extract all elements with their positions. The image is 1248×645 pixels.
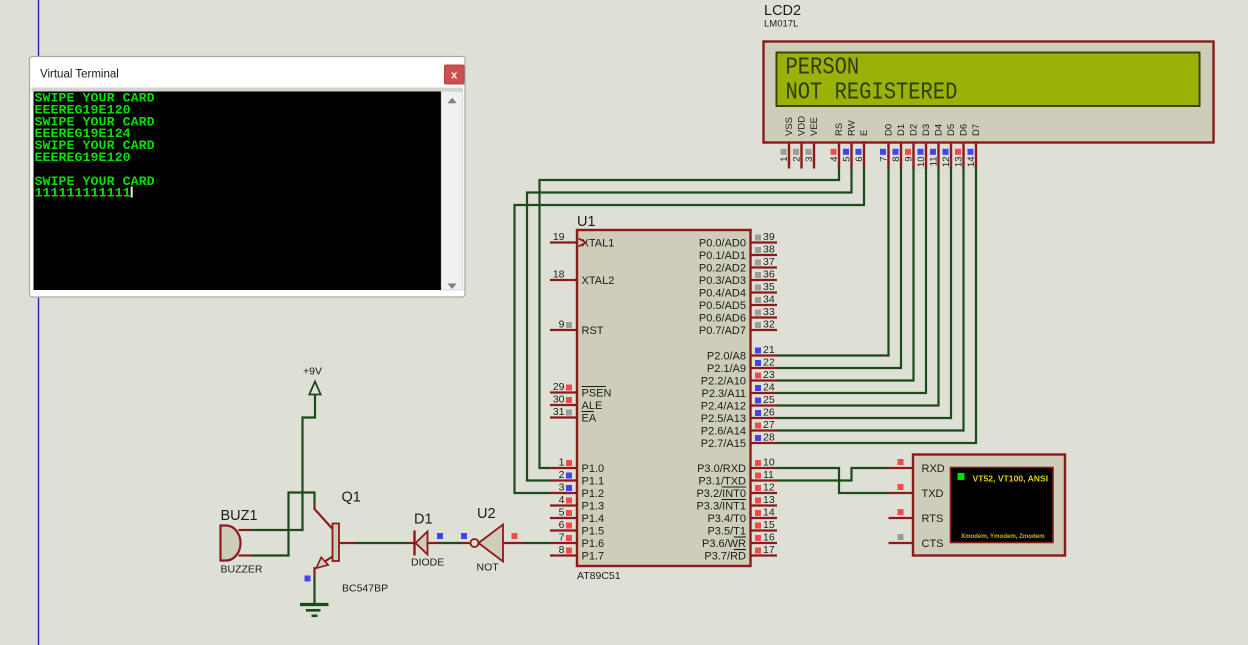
svg-text:P0.3/AD3: P0.3/AD3 [699,275,746,287]
svg-text:P3.6/WR: P3.6/WR [702,538,746,550]
svg-text:PSEN: PSEN [582,388,612,400]
svg-text:9: 9 [559,319,565,331]
svg-text:9: 9 [904,157,915,162]
svg-text:RST: RST [582,325,604,337]
svg-text:33: 33 [763,306,775,318]
svg-text:DIODE: DIODE [411,557,444,569]
svg-text:7: 7 [879,157,890,162]
svg-text:VT52, VT100, ANSI: VT52, VT100, ANSI [973,474,1049,484]
svg-text:+9V: +9V [303,366,322,378]
svg-text:11: 11 [763,469,774,481]
svg-text:1: 1 [779,157,790,162]
svg-text:LM017L: LM017L [764,19,798,30]
svg-text:13: 13 [954,157,965,168]
svg-text:P0.6/AD6: P0.6/AD6 [699,313,746,325]
svg-text:P1.4: P1.4 [582,513,605,525]
svg-text:16: 16 [763,532,775,544]
svg-text:EA: EA [582,413,597,425]
svg-text:D3: D3 [921,124,932,136]
svg-text:5: 5 [842,157,853,162]
svg-text:27: 27 [763,419,775,431]
svg-text:18: 18 [553,269,565,281]
svg-text:13: 13 [763,494,775,506]
svg-text:28: 28 [763,432,775,444]
svg-text:3: 3 [804,157,815,162]
svg-text:P1.1: P1.1 [582,476,605,488]
svg-text:P0.0/AD0: P0.0/AD0 [699,238,746,250]
svg-text:38: 38 [763,244,775,256]
svg-text:P3.2/INT0: P3.2/INT0 [696,488,746,500]
svg-text:P2.2/A10: P2.2/A10 [701,376,746,388]
svg-text:D2: D2 [909,124,920,136]
svg-text:EEEREG19E120: EEEREG19E120 [35,151,131,166]
svg-text:21: 21 [763,344,775,356]
svg-text:LCD2: LCD2 [764,3,801,19]
svg-text:12: 12 [941,157,952,168]
svg-text:7: 7 [559,532,565,544]
svg-text:P1.5: P1.5 [582,526,605,538]
svg-text:NOT: NOT [477,562,500,574]
svg-text:D4: D4 [934,124,945,136]
svg-text:AT89C51: AT89C51 [577,570,621,582]
svg-text:Xmodem, Ymodem, Zmodem: Xmodem, Ymodem, Zmodem [961,533,1045,540]
svg-text:2: 2 [792,157,803,162]
svg-text:32: 32 [763,319,775,331]
svg-text:14: 14 [966,157,977,168]
svg-text:10: 10 [916,157,927,168]
svg-text:4: 4 [559,494,565,506]
svg-text:RW: RW [847,120,858,136]
svg-text:P2.4/A12: P2.4/A12 [701,401,746,413]
svg-text:P0.5/AD5: P0.5/AD5 [699,300,746,312]
svg-text:8: 8 [891,157,902,162]
svg-text:D1: D1 [414,512,433,528]
svg-text:36: 36 [763,269,775,281]
svg-text:ALE: ALE [582,400,603,412]
svg-text:8: 8 [559,544,565,556]
svg-text:CTS: CTS [922,538,944,550]
svg-text:39: 39 [763,231,775,243]
svg-text:D1: D1 [896,124,907,136]
svg-text:P3.3/INT1: P3.3/INT1 [696,501,746,513]
svg-text:BC547BP: BC547BP [342,583,388,595]
svg-text:4: 4 [829,157,840,162]
svg-text:111111111111: 111111111111 [35,187,131,202]
svg-text:10: 10 [763,457,775,469]
svg-text:37: 37 [763,256,775,268]
svg-text:34: 34 [763,294,775,306]
svg-text:NOT REGISTERED: NOT REGISTERED [786,78,958,106]
svg-text:P3.1/TXD: P3.1/TXD [698,476,746,488]
svg-text:2: 2 [559,469,565,481]
svg-text:P1.6: P1.6 [582,538,605,550]
svg-text:VEE: VEE [809,117,820,136]
svg-text:P1.7: P1.7 [582,551,605,563]
svg-text:25: 25 [763,394,775,406]
svg-text:24: 24 [763,382,775,394]
svg-text:U2: U2 [477,506,496,522]
svg-text:19: 19 [553,231,565,243]
svg-text:12: 12 [763,482,775,494]
svg-text:P0.7/AD7: P0.7/AD7 [699,325,746,337]
svg-text:BUZ1: BUZ1 [221,508,258,524]
svg-text:1: 1 [559,457,565,469]
svg-text:RS: RS [834,123,845,136]
svg-text:30: 30 [553,394,565,406]
svg-text:22: 22 [763,357,775,369]
svg-text:P1.0: P1.0 [582,463,605,475]
svg-text:35: 35 [763,281,775,293]
svg-text:P3.7/RD: P3.7/RD [704,551,746,563]
svg-text:XTAL1: XTAL1 [582,238,615,250]
svg-text:x: x [451,70,458,82]
svg-text:P3.0/RXD: P3.0/RXD [697,463,746,475]
svg-text:E: E [859,130,870,136]
svg-text:TXD: TXD [922,488,944,500]
svg-text:D7: D7 [971,124,982,136]
svg-text:VSS: VSS [784,117,795,136]
svg-text:P0.1/AD1: P0.1/AD1 [699,250,746,262]
svg-text:P2.6/A14: P2.6/A14 [701,426,746,438]
svg-text:RTS: RTS [922,513,944,525]
svg-text:3: 3 [559,482,565,494]
svg-text:29: 29 [553,381,565,393]
svg-text:PERSON: PERSON [786,53,860,81]
svg-text:BUZZER: BUZZER [221,564,263,576]
svg-text:P0.2/AD2: P0.2/AD2 [699,263,746,275]
svg-text:D6: D6 [959,124,970,136]
svg-text:Q1: Q1 [342,490,361,506]
svg-text:Virtual Terminal: Virtual Terminal [40,69,119,81]
svg-text:XTAL2: XTAL2 [582,275,615,287]
svg-text:RXD: RXD [922,463,945,475]
svg-text:P2.0/A8: P2.0/A8 [707,351,746,363]
svg-text:P1.3: P1.3 [582,501,605,513]
svg-text:P0.4/AD4: P0.4/AD4 [699,288,746,300]
svg-text:U1: U1 [577,214,596,230]
svg-text:P3.4/T0: P3.4/T0 [707,513,746,525]
svg-text:6: 6 [854,157,865,162]
svg-text:17: 17 [763,544,775,556]
svg-text:P2.3/A11: P2.3/A11 [702,388,746,400]
svg-text:6: 6 [559,519,565,531]
svg-text:D5: D5 [946,124,957,136]
svg-text:5: 5 [559,507,565,519]
svg-text:VDD: VDD [797,116,808,136]
svg-text:26: 26 [763,407,775,419]
svg-text:14: 14 [763,507,775,519]
svg-text:P2.5/A13: P2.5/A13 [701,413,746,425]
svg-text:P2.7/A15: P2.7/A15 [701,438,746,450]
svg-text:31: 31 [553,406,565,418]
svg-text:P1.2: P1.2 [582,488,605,500]
svg-text:23: 23 [763,369,775,381]
svg-text:P3.5/T1: P3.5/T1 [707,526,746,538]
svg-text:11: 11 [929,157,940,167]
svg-text:15: 15 [763,519,775,531]
svg-text:D0: D0 [884,124,895,136]
svg-text:P2.1/A9: P2.1/A9 [707,363,746,375]
